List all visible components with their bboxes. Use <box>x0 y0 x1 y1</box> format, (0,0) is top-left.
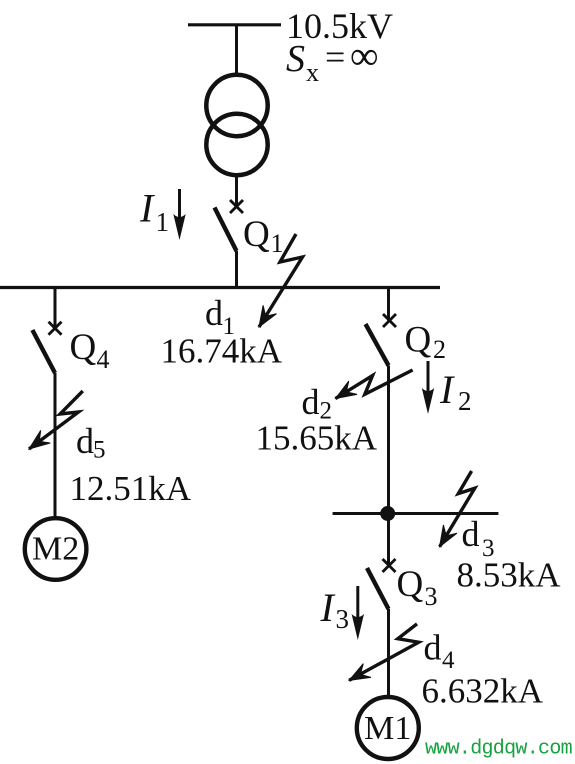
svg-text:d: d <box>462 514 480 554</box>
svg-text:d: d <box>302 382 320 422</box>
transformer T1 primary winding <box>206 75 267 136</box>
svg-text:2: 2 <box>458 386 472 416</box>
current arrow I2 <box>422 361 434 414</box>
svg-text:I: I <box>439 367 455 412</box>
wire Q3 to motor M1 <box>387 609 390 698</box>
wire node to Q3 <box>387 514 390 566</box>
svg-text:3: 3 <box>336 604 350 634</box>
source bus 10.5kV <box>188 23 281 26</box>
svg-text:12.51kA: 12.51kA <box>70 469 192 508</box>
svg-text:www.dgdqw.com: www.dgdqw.com <box>425 738 572 761</box>
node junction dot <box>380 506 395 521</box>
svg-text:Q: Q <box>405 320 432 361</box>
fault bolt d4 <box>349 624 419 681</box>
breaker Q1 contact x <box>230 200 243 213</box>
fault bolt d3 <box>440 471 475 547</box>
svg-text:I: I <box>320 585 336 630</box>
fault bolt d1 <box>259 234 303 327</box>
svg-text:1: 1 <box>271 229 284 258</box>
breaker Q4 blade <box>32 330 55 373</box>
current arrow I1 <box>173 189 185 240</box>
wire Q4 to motor M2 <box>54 373 57 517</box>
svg-text:Q: Q <box>243 214 270 255</box>
wire Q2 to node <box>387 366 390 514</box>
svg-text:∞: ∞ <box>350 33 379 78</box>
wire main bus to Q4 <box>54 288 57 329</box>
breaker Q3 blade <box>367 568 389 609</box>
svg-text:d: d <box>76 421 94 461</box>
node branch line <box>333 512 499 515</box>
transformer T1 secondary winding <box>206 114 267 175</box>
svg-text:d: d <box>424 628 442 668</box>
svg-text:Q: Q <box>397 564 424 605</box>
motor M2 circle <box>25 518 87 580</box>
wire source bus to transformer <box>235 25 238 75</box>
svg-text:2: 2 <box>433 335 446 364</box>
breaker Q1 blade <box>215 208 237 252</box>
wire main bus to Q2 <box>387 288 390 321</box>
svg-text:8.53kA: 8.53kA <box>457 556 562 595</box>
current arrow I3 <box>352 586 364 640</box>
svg-text:4: 4 <box>97 345 110 374</box>
svg-text:S: S <box>286 38 305 80</box>
svg-text:16.74kA: 16.74kA <box>161 332 283 371</box>
svg-text:=: = <box>325 37 345 77</box>
svg-text:x: x <box>306 58 319 87</box>
svg-text:M2: M2 <box>32 531 79 568</box>
wire transformer to Q1 <box>235 177 238 207</box>
svg-text:6.632kA: 6.632kA <box>422 672 544 711</box>
svg-text:1: 1 <box>156 207 170 237</box>
svg-text:4: 4 <box>442 647 455 674</box>
fault bolt d5 <box>29 391 83 449</box>
svg-text:5: 5 <box>93 437 106 464</box>
svg-text:3: 3 <box>425 582 438 611</box>
svg-text:I: I <box>139 186 155 231</box>
breaker Q2 contact x <box>383 314 396 327</box>
main bus <box>0 286 440 289</box>
svg-text:15.65kA: 15.65kA <box>256 419 378 458</box>
svg-text:d: d <box>205 293 223 333</box>
breaker Q4 contact x <box>49 322 62 335</box>
breaker Q3 contact x <box>383 559 396 572</box>
motor M1 circle <box>357 697 419 759</box>
svg-text:M1: M1 <box>364 710 411 747</box>
breaker Q2 blade <box>366 324 389 366</box>
svg-text:Q: Q <box>70 327 97 368</box>
wire Q1 to main bus <box>235 251 238 288</box>
fault bolt d2 <box>336 370 413 399</box>
